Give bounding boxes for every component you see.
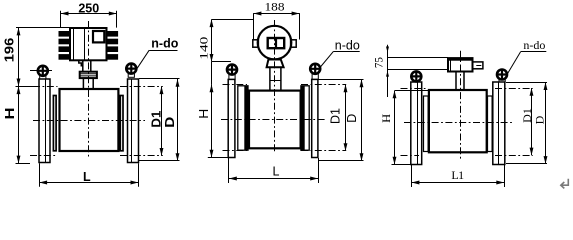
- svg-text:D1: D1: [329, 108, 343, 124]
- dimension 75 arrow top: [386, 47, 389, 53]
- dimension D line: [545, 82, 547, 164]
- bolt circle line top-right / D1 extension: [120, 86, 163, 88]
- extension line D bottom: [318, 160, 364, 162]
- eyebolt right: [497, 70, 507, 80]
- extension line 250 left: [60, 11, 62, 28]
- dimension L line: [39, 182, 138, 184]
- flange left inner line: [417, 82, 419, 165]
- pipe centerline: [404, 122, 513, 124]
- dimension D1 line: [531, 88, 533, 155]
- weld ring right dark band: [301, 86, 305, 150]
- pipe centerline: [221, 119, 327, 121]
- weld ring left: [238, 86, 248, 150]
- dimension 250 line: [61, 13, 117, 15]
- converter head circle: [258, 26, 292, 60]
- bolt circle line top-right / D1 extension: [301, 84, 346, 86]
- bolt circle line bottom-right / D1 extension: [120, 155, 163, 157]
- extension line L1 right: [504, 165, 506, 187]
- dimension D line: [177, 79, 179, 161]
- label n-do underline: [521, 51, 547, 53]
- neck trapezoid: [267, 60, 284, 68]
- extension line D top: [139, 78, 180, 80]
- cable connector: [473, 62, 483, 69]
- converter box U1: [70, 28, 107, 60]
- neck step: [76, 60, 83, 66]
- pipe centerline: [33, 120, 145, 122]
- eyebolt right: [126, 64, 136, 74]
- eyebolt left shank: [40, 76, 46, 79]
- svg-text:D: D: [163, 117, 177, 128]
- extension line 188 right: [299, 13, 301, 39]
- flange right: [312, 79, 318, 157]
- extension line 140 top: [212, 19, 254, 21]
- display window: [93, 31, 104, 42]
- extension line mid: [16, 86, 36, 88]
- dimension L1 line: [412, 182, 505, 184]
- flange left: [228, 79, 235, 157]
- label n-do leader: [508, 52, 521, 74]
- junction box: [448, 58, 473, 71]
- return mark: [561, 179, 569, 189]
- flange left: [39, 79, 50, 163]
- svg-text:L1: L1: [451, 168, 464, 182]
- bolt circle line top-right / D1 extension: [495, 88, 533, 90]
- extension line H bottom: [392, 164, 412, 166]
- label n-do underline: [149, 50, 177, 52]
- extension line 250 right: [116, 11, 118, 28]
- eyebolt left centerline tick: [30, 70, 52, 72]
- converter head tab right: [291, 40, 297, 47]
- svg-text:H: H: [197, 109, 211, 119]
- svg-text:H: H: [3, 108, 17, 120]
- svg-text:H: H: [379, 113, 393, 122]
- junction box top band: [448, 58, 473, 61]
- converter head tab left: [253, 40, 259, 47]
- extension line 75 top: [388, 57, 449, 59]
- dimension 75 line: [387, 45, 389, 97]
- eyebolt left: [227, 65, 237, 75]
- flange right inner line: [131, 79, 133, 163]
- eyebolt right: [310, 64, 320, 74]
- display window: [268, 38, 285, 48]
- vertical centerline: [88, 21, 90, 158]
- vertical centerline: [460, 51, 462, 160]
- sensor body: [249, 91, 301, 149]
- cable connector inner dash: [476, 65, 481, 67]
- bolt circle line top-left: [33, 86, 58, 88]
- label n-do leader: [136, 50, 149, 70]
- dimension 196 line: [18, 28, 20, 87]
- neck stem: [456, 72, 464, 91]
- cooling fins left: [59, 31, 71, 60]
- neck collar: [80, 72, 97, 78]
- dimension 188 line: [254, 13, 300, 15]
- svg-text:188: 188: [265, 0, 285, 14]
- extension line L right: [318, 158, 320, 183]
- hub right: [488, 96, 493, 152]
- extension line D top: [318, 79, 364, 81]
- hub right: [120, 96, 123, 151]
- bolt circle line bottom-right / D1 extension: [301, 150, 346, 152]
- eyebolt right shank: [499, 80, 505, 82]
- neck collar inner lines: [80, 74, 97, 76]
- dimension H line: [18, 86, 20, 163]
- dimension D line: [361, 79, 363, 161]
- dimension D1 line: [345, 84, 347, 151]
- display window divider: [275, 38, 277, 48]
- flange right inner line: [498, 82, 500, 165]
- extension line 75 bottom: [388, 69, 449, 71]
- bolt circle line bottom-left: [223, 150, 248, 152]
- extension line 188 left: [253, 13, 255, 39]
- extension line L right: [138, 163, 140, 187]
- flange right: [493, 82, 505, 165]
- svg-text:D: D: [345, 114, 359, 123]
- eyebolt right shank: [128, 74, 134, 78]
- converter box inner line 1: [73, 28, 75, 60]
- dimension H connector line: [211, 62, 213, 85]
- dimension 140 line: [211, 19, 213, 62]
- bolt circle line bottom-left: [401, 155, 420, 157]
- hub left: [424, 96, 429, 152]
- label n-do underline: [333, 51, 359, 53]
- dimension L line: [229, 178, 318, 180]
- extension line D top: [506, 82, 547, 84]
- svg-text:L: L: [83, 170, 91, 184]
- converter box inner line 2: [84, 28, 86, 60]
- cooling fins right: [107, 31, 119, 60]
- eyebolt left shank: [229, 75, 235, 80]
- label n-do leader: [320, 51, 333, 67]
- neck stem: [83, 60, 91, 71]
- neck cylinder weld line: [270, 80, 281, 82]
- dimension D1 line: [161, 86, 163, 156]
- svg-text:196: 196: [3, 38, 17, 63]
- eyebolt left: [411, 71, 421, 81]
- dimension H line: [211, 84, 213, 157]
- extension line D bottom: [506, 163, 547, 165]
- weld ring left dark band: [244, 86, 248, 150]
- svg-text:D: D: [533, 115, 547, 124]
- hub left: [53, 96, 56, 151]
- extension line 140 bottom: [212, 61, 231, 63]
- extension line L left: [228, 158, 230, 183]
- extension line D bottom: [139, 160, 180, 162]
- dimension 75 arrow bottom: [386, 71, 389, 77]
- sensor body: [429, 90, 487, 152]
- extension line H bottom: [16, 163, 31, 165]
- bolt circle line top-left: [401, 88, 426, 90]
- extension line L left: [39, 163, 41, 187]
- extension line L1 left: [411, 165, 413, 187]
- flange right: [128, 79, 139, 163]
- eyebolt left: [38, 66, 48, 76]
- bolt circle line bottom-left: [30, 155, 58, 157]
- vertical centerline: [274, 20, 276, 153]
- flange left: [411, 82, 422, 165]
- svg-text:n-do: n-do: [523, 38, 545, 52]
- weld ring right: [301, 86, 309, 150]
- flange left inner line: [45, 79, 47, 163]
- extension line H top: [395, 90, 429, 92]
- junction box inner line: [450, 58, 452, 71]
- dimension H line: [394, 91, 396, 165]
- eyebolt right shank: [312, 74, 318, 79]
- neck cylinder: [270, 67, 281, 90]
- svg-text:75: 75: [372, 57, 386, 68]
- svg-text:L: L: [273, 165, 280, 179]
- svg-text:D1: D1: [149, 111, 163, 128]
- extension line H bottom: [208, 157, 230, 159]
- bolt circle line bottom-right / D1 extension: [495, 155, 533, 157]
- svg-text:n-do: n-do: [151, 36, 178, 50]
- bolt circle line top-left: [223, 84, 248, 86]
- svg-text:n-do: n-do: [335, 39, 360, 53]
- sensor body: [60, 89, 119, 151]
- svg-text:140: 140: [197, 37, 211, 60]
- extension line 196 top: [16, 27, 70, 29]
- neck cylinder: [83, 78, 93, 89]
